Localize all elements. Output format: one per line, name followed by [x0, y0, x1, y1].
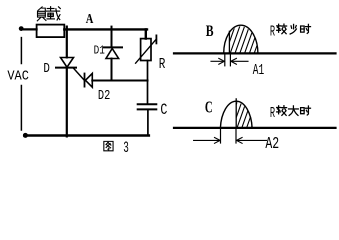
dimension arrow right A1: [231, 60, 248, 62]
svg-text:R: R: [270, 24, 275, 40]
hatching B: [230, 24, 265, 55]
dimension ticks A2: [220, 128, 222, 143]
svg-text:3: 3: [123, 139, 129, 157]
waveform hump C: [220, 101, 252, 128]
waveform hump B: [224, 25, 258, 53]
dimension arrow right A2: [237, 139, 267, 141]
diode D2: [84, 74, 86, 87]
axis line C: [174, 127, 336, 129]
svg-text:D1: D1: [94, 43, 105, 57]
label 图 3 (figure 3): [104, 141, 113, 150]
wire node A down to D1: [111, 27, 113, 48]
diode D1: [104, 46, 122, 48]
svg-text:B: B: [206, 23, 214, 40]
thyristor D (SCR): [61, 58, 74, 68]
wire VAC source left side: [20, 38, 22, 64]
svg-text:A2: A2: [265, 134, 279, 153]
label 负载: [37, 7, 46, 21]
svg-text:C: C: [160, 101, 167, 119]
capacitor C: [138, 103, 157, 105]
svg-text:D2: D2: [98, 88, 110, 104]
dimension arrow left A1: [211, 60, 224, 62]
wire D2 to RC node: [92, 79, 147, 81]
wire from top terminal to load resistor: [21, 28, 36, 30]
wire corner down into R: [145, 29, 147, 38]
wire R to capacitor: [147, 61, 149, 104]
wire D1 anode down to gate wire: [111, 59, 113, 81]
wire load to corner (top rail): [64, 28, 147, 30]
svg-text:A1: A1: [253, 62, 264, 79]
hatching C: [236, 94, 262, 129]
svg-text:C: C: [205, 98, 213, 117]
terminal dot top-left: [19, 26, 24, 31]
firing line B: [228, 31, 230, 53]
dimension arrow left A2: [194, 139, 221, 141]
firing line C: [235, 99, 237, 128]
axis line B: [174, 52, 336, 54]
svg-text:R: R: [270, 106, 275, 122]
gate wire of D: [74, 68, 85, 80]
svg-text:R: R: [159, 56, 166, 73]
resistor 负载 (load) box: [37, 25, 65, 37]
svg-text:A: A: [86, 12, 94, 27]
wire capacitor to bottom rail: [147, 109, 149, 135]
svg-text:VAC: VAC: [7, 68, 29, 84]
wire node A down to SCR: [66, 27, 68, 58]
resistor R (trimmer): [141, 39, 151, 61]
svg-text:D: D: [43, 61, 50, 77]
bottom rail wire: [24, 134, 148, 137]
terminal dot bottom-left: [23, 133, 28, 138]
dimension ticks A1: [224, 54, 226, 66]
wire SCR cathode to bottom rail: [66, 68, 68, 137]
